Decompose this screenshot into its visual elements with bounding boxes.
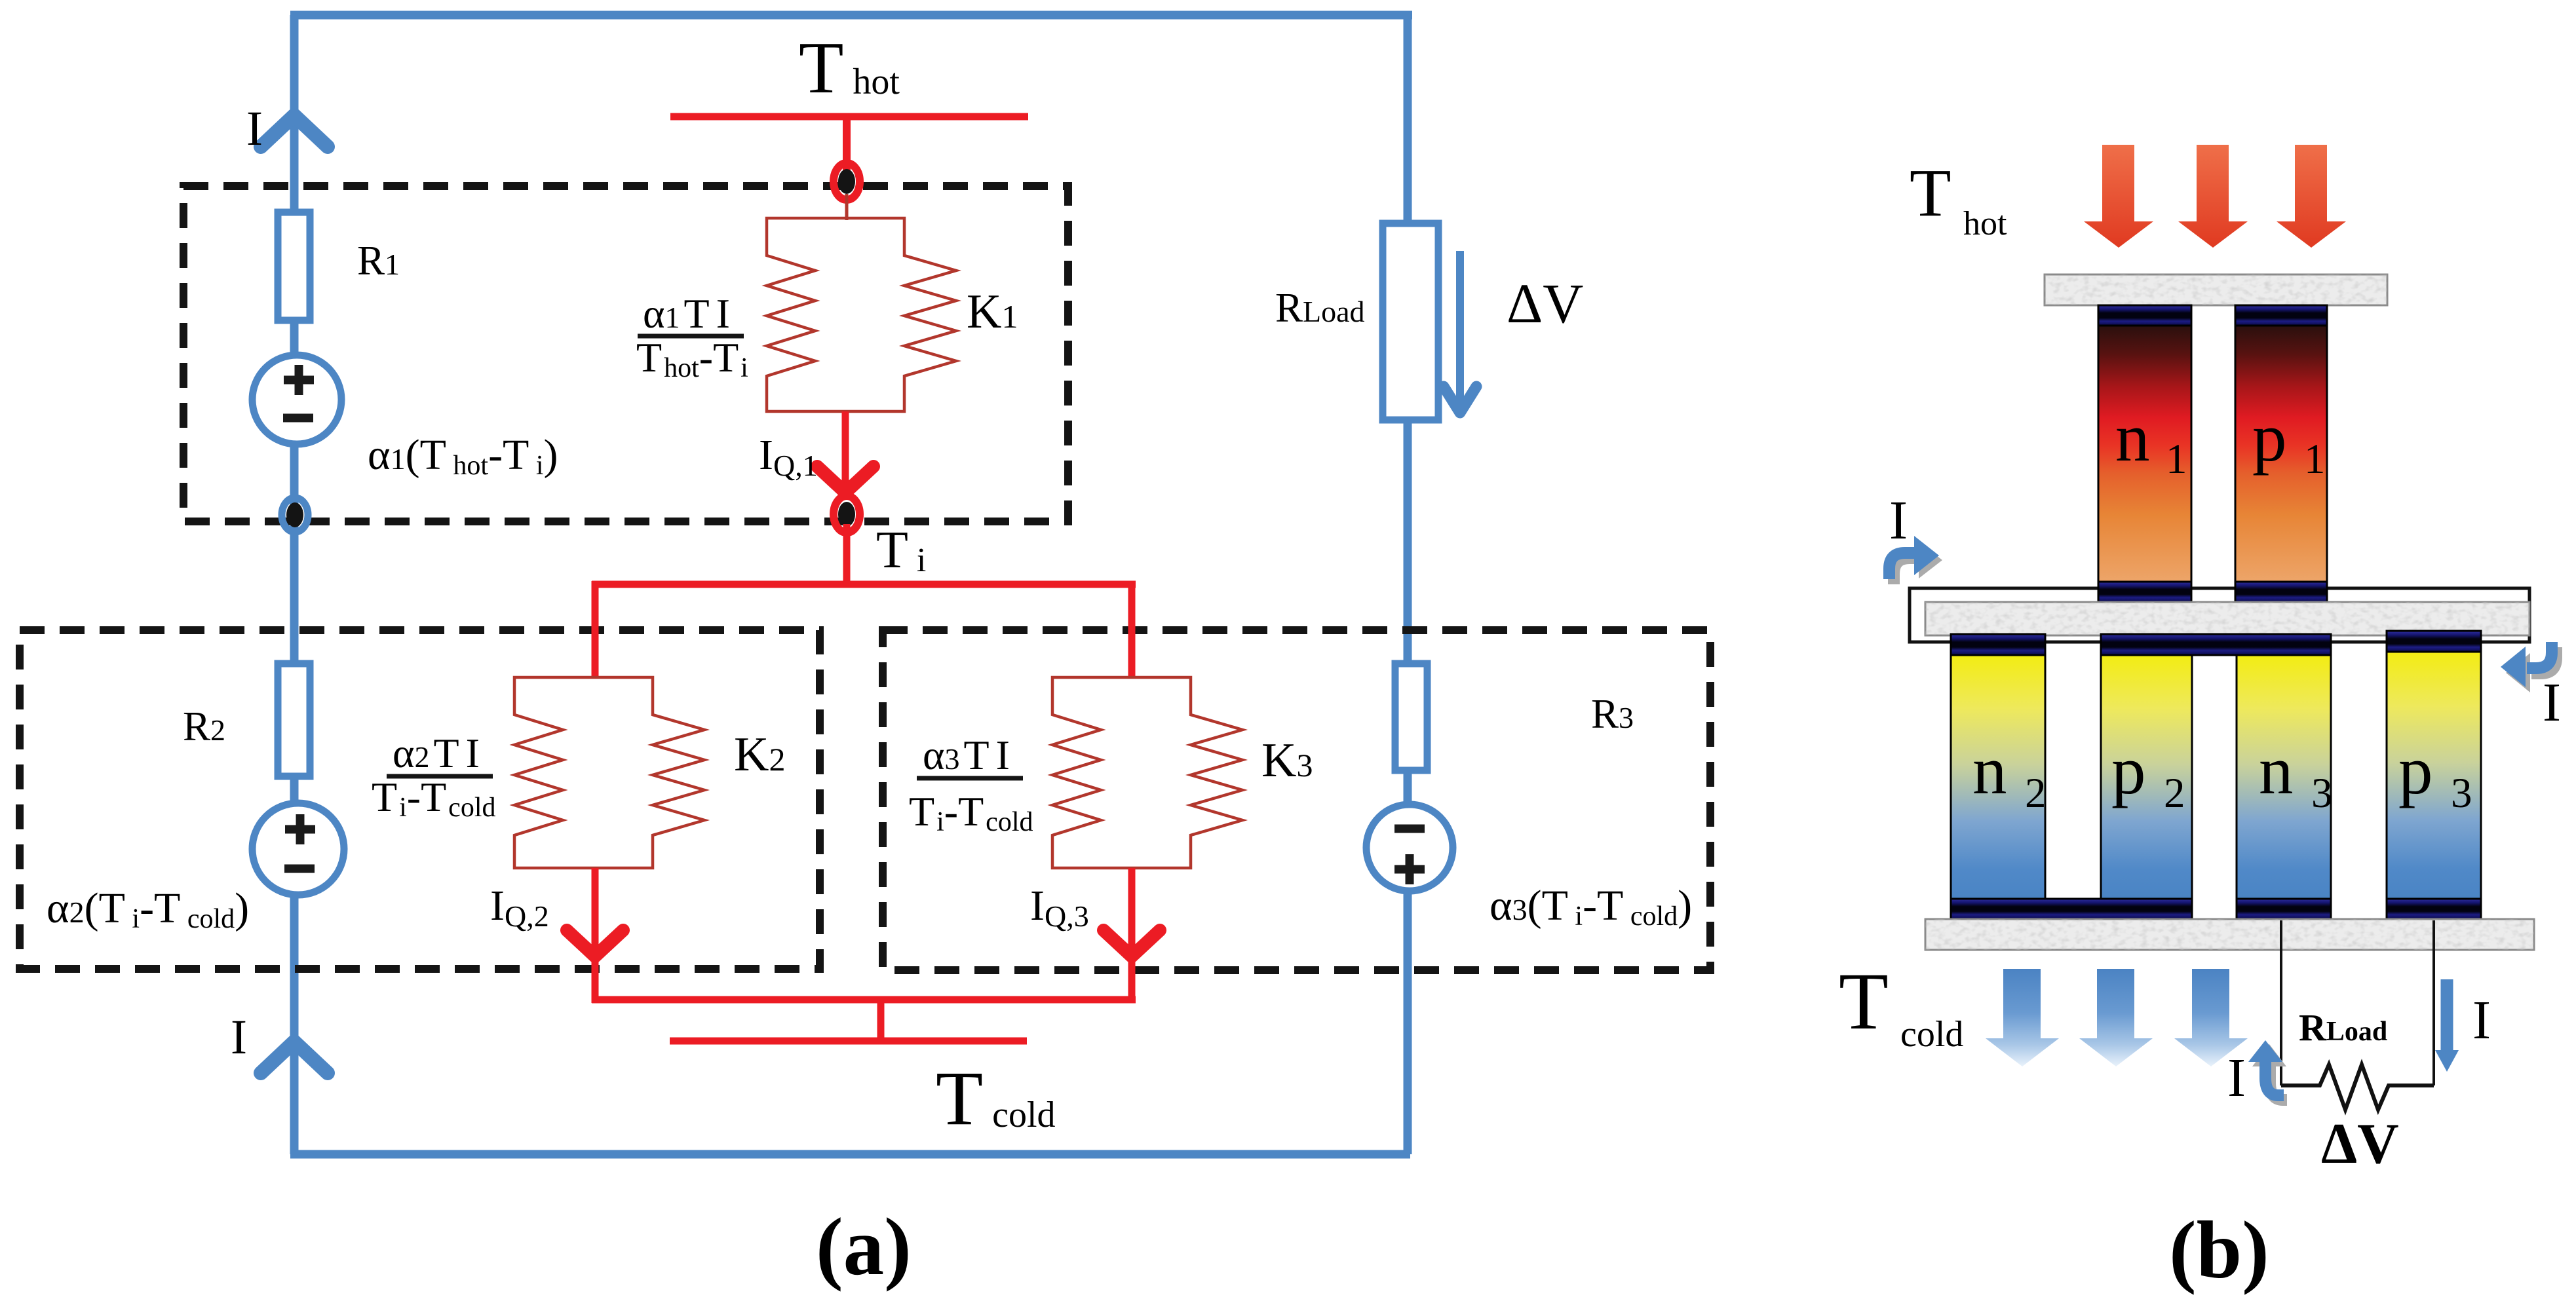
Tcold bar — [670, 1038, 1027, 1045]
wire red node to K1 — [845, 194, 849, 220]
leg n2 — [1951, 655, 2045, 899]
cold arrow 2 — [2079, 969, 2153, 1066]
current arrow I mid-right — [2501, 642, 2556, 692]
label RLoad panel b — [2299, 1006, 2387, 1049]
resistor R3 — [1395, 664, 1427, 770]
fraction alpha3TI over Ti-Tcold — [909, 732, 1033, 837]
label n1 — [2115, 399, 2187, 483]
Thot bar — [670, 113, 1028, 121]
svg-text:1: 1 — [2166, 436, 2187, 483]
label p3 — [2398, 732, 2472, 817]
svg-text:I: I — [246, 102, 263, 156]
thermal block K2 — [514, 677, 704, 868]
arrow deltaV — [1444, 251, 1476, 413]
wire blue right side — [1404, 15, 1412, 1154]
svg-text:2: 2 — [2025, 770, 2047, 817]
contact strip n1 top — [2098, 305, 2191, 326]
svg-text:T: T — [1839, 956, 1889, 1046]
label p1 — [2252, 399, 2326, 483]
contact strip n2-p2 bottom — [1951, 899, 2192, 919]
wire black load left — [2280, 920, 2282, 1085]
svg-text:cold: cold — [1900, 1014, 1963, 1055]
svg-text:p: p — [2252, 399, 2287, 476]
svg-text:I: I — [1889, 490, 1908, 551]
wire red join to Tcold bar — [592, 1000, 1136, 1041]
wire blue loop top — [290, 11, 1412, 20]
svg-text:hot: hot — [1963, 205, 2007, 242]
current arrow I lower-left — [261, 1042, 328, 1073]
svg-text:n: n — [2259, 732, 2294, 808]
label I lower-left — [231, 1010, 247, 1065]
label alpha1(Thot-Ti) — [368, 431, 558, 481]
contact strip n3 bottom — [2237, 899, 2331, 919]
leg p1 — [2235, 326, 2327, 582]
svg-text:ΔV: ΔV — [2321, 1112, 2399, 1176]
svg-text:α2TI: α2TI — [393, 730, 480, 776]
svg-text:(a): (a) — [816, 1202, 912, 1292]
label alpha3(Ti-Tcold) — [1490, 882, 1692, 932]
svg-text:I: I — [2543, 672, 2561, 733]
svg-text:2: 2 — [2164, 770, 2185, 817]
label (a) — [816, 1202, 912, 1292]
interconnect frame middle — [1910, 588, 2529, 642]
current arrow I mid-left — [1889, 536, 1942, 584]
label K1 — [967, 285, 1018, 339]
wire red Thot to node — [843, 117, 851, 170]
svg-text:n: n — [1972, 732, 2007, 808]
label deltaV — [1507, 272, 1583, 335]
voltage source V1 — [252, 355, 341, 444]
label K2 — [734, 728, 785, 782]
resistor RLoad panel b — [2281, 1065, 2434, 1110]
dashed box 1 — [183, 186, 1068, 521]
svg-text:ΔV: ΔV — [1507, 272, 1583, 335]
contact strip p2-n3 top — [2101, 634, 2331, 655]
leg n1 — [2098, 326, 2191, 582]
svg-text:p: p — [2398, 732, 2433, 808]
label Thot — [799, 28, 900, 109]
cold arrow 3 — [2174, 969, 2248, 1066]
label RLoad — [1275, 285, 1365, 331]
ceramic plate middle — [1925, 602, 2529, 635]
label n2 — [1972, 732, 2047, 817]
voltage source V3 — [1366, 804, 1453, 891]
cold arrow 1 — [1986, 969, 2059, 1066]
wire red K3 exit with IQ3 arrow — [1104, 868, 1160, 1003]
label I bottom-left — [2227, 1047, 2246, 1108]
heat arrow hot 3 — [2277, 145, 2346, 248]
heat arrow hot 1 — [2084, 145, 2153, 248]
voltage source V2 — [252, 803, 344, 895]
svg-text:3: 3 — [2311, 770, 2333, 817]
contact strip p3 bottom — [2387, 899, 2481, 919]
contact strip p3 top — [2387, 631, 2481, 652]
fraction alpha2TI over Ti-Tcold — [372, 730, 495, 823]
svg-text:(b): (b) — [2169, 1205, 2269, 1296]
wire blue left side — [290, 15, 299, 1154]
leg n3 — [2237, 655, 2331, 899]
contact strip n1 bottom — [2098, 582, 2191, 602]
ceramic plate bottom — [1925, 919, 2534, 950]
label I mid-left — [1889, 490, 1908, 551]
label Tcold panel b — [1839, 956, 1963, 1055]
label R3 — [1591, 691, 1634, 737]
label alpha2(Ti-Tcold) — [47, 884, 249, 934]
label (b) — [2169, 1205, 2269, 1296]
dashed box 3 — [883, 630, 1710, 970]
label IQ3 — [1030, 882, 1089, 933]
fraction alpha1TI over Thot-Ti — [636, 290, 748, 383]
dashed box 2 — [20, 630, 820, 969]
leg p2 — [2101, 655, 2192, 899]
label R1 — [357, 238, 400, 284]
label R2 — [183, 704, 225, 749]
current arrow I upper-left — [261, 115, 328, 147]
label IQ1 — [759, 431, 818, 482]
wire red K1 to node Ti with IQ1 arrow — [817, 411, 874, 497]
label I upper-left — [246, 102, 263, 156]
label Tcold — [936, 1055, 1056, 1141]
label K3 — [1261, 734, 1313, 787]
resistor R2 — [278, 664, 310, 776]
label I mid-right — [2543, 672, 2561, 733]
svg-text:p: p — [2111, 732, 2146, 808]
wire black load right — [2432, 920, 2435, 1085]
resistor R1 — [278, 212, 310, 320]
current arrow I bottom-left-up — [2248, 1040, 2287, 1100]
label I bottom-right — [2472, 990, 2491, 1051]
contact strip p1 bottom — [2235, 582, 2327, 602]
label IQ2 — [490, 882, 549, 933]
wire blue bottom — [290, 1150, 1410, 1159]
resistor RLoad — [1383, 223, 1438, 420]
svg-text:3: 3 — [2451, 770, 2472, 817]
contact strip n2 top — [1951, 634, 2045, 655]
node A on left wire — [282, 498, 308, 532]
svg-text:I: I — [2472, 990, 2491, 1051]
svg-text:n: n — [2115, 399, 2150, 476]
wire red K2 exit with IQ2 arrow — [567, 868, 623, 1003]
svg-text:T: T — [1910, 155, 1951, 231]
label Thot panel b — [1910, 155, 2007, 242]
label n3 — [2259, 732, 2333, 817]
label p2 — [2111, 732, 2185, 817]
heat arrow hot 2 — [2178, 145, 2248, 248]
wire red Ti split tree — [592, 524, 1136, 679]
node Ti — [834, 496, 860, 533]
svg-text:I: I — [231, 1010, 247, 1065]
current arrow I bottom-right-down — [2435, 979, 2459, 1072]
svg-text:α3TI: α3TI — [923, 732, 1010, 778]
svg-text:I: I — [2227, 1047, 2246, 1108]
label deltaV panel b — [2321, 1112, 2399, 1176]
leg p3 — [2387, 652, 2481, 899]
thermal block K1 — [767, 218, 956, 411]
svg-text:1: 1 — [2304, 436, 2326, 483]
ceramic plate top — [2045, 274, 2387, 305]
label Ti — [876, 521, 926, 579]
svg-text:α1TI: α1TI — [643, 290, 730, 337]
node top — [834, 163, 860, 200]
contact strip p1 top — [2235, 305, 2327, 326]
thermal block K3 — [1052, 677, 1242, 868]
